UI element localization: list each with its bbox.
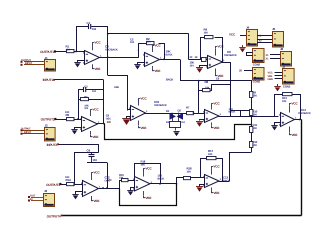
power VCC D1	[289, 106, 291, 113]
svg-text:CON3: CON3	[283, 85, 291, 89]
connector J3 row3	[44, 194, 55, 207]
svg-text:1K: 1K	[195, 56, 198, 59]
connector J1 row1	[45, 60, 56, 72]
svg-text:BACK: BACK	[166, 54, 173, 57]
svg-text:10K: 10K	[253, 94, 258, 97]
svg-text:INPUT: INPUT	[25, 62, 33, 65]
resistor R6 feedback B1	[81, 98, 89, 101]
ground C2 plus input	[131, 188, 135, 191]
svg-text:INPUT2: INPUT2	[47, 143, 58, 147]
wire JB1 pins	[246, 52, 253, 54]
svg-text:VEE: VEE	[218, 74, 224, 78]
resistor R16 series to C3 stage	[184, 177, 191, 180]
ground B3 plus input	[200, 120, 205, 121]
op-amp U3	[208, 56, 223, 69]
op-amp B3	[205, 110, 220, 123]
svg-text:VEE: VEE	[155, 69, 161, 73]
node diode junction dots	[171, 113, 173, 115]
svg-text:OUTPUT1: OUTPUT1	[40, 50, 54, 54]
svg-text:BACK: BACK	[229, 111, 236, 114]
ground U3 plus input	[200, 66, 208, 68]
wire R5 to B1	[74, 119, 82, 121]
svg-text:VEE: VEE	[146, 196, 152, 200]
wire C2 minus	[130, 180, 135, 182]
wire INPUT2 drop to loop	[98, 144, 100, 152]
resistor R1	[67, 50, 75, 53]
connector JA2	[273, 32, 284, 48]
svg-text:VEE: VEE	[141, 126, 147, 130]
ground U2 plus input	[138, 63, 145, 65]
ground U1 plus input	[78, 61, 85, 63]
svg-text:2X: 2X	[108, 178, 111, 182]
wire JC2 pins	[275, 72, 282, 74]
op-amp U2	[145, 53, 160, 67]
wire C1-stage feedback left	[75, 153, 99, 185]
svg-text:10K: 10K	[253, 113, 258, 116]
resistor R3 series to U3	[189, 59, 208, 61]
wire U2 out down to B3	[181, 60, 252, 91]
wire C3 feedback loop	[201, 159, 207, 178]
svg-text:J7: J7	[282, 65, 286, 69]
wire R1 to U1	[74, 51, 85, 53]
power VEE C1 stage	[91, 196, 93, 199]
wire B1 second feedback	[78, 99, 80, 101]
resistor R5	[67, 118, 75, 121]
resistor R11 ladder	[250, 127, 253, 133]
wire C2 feedback top loop	[135, 164, 161, 184]
resistor R14	[67, 183, 75, 186]
wire INPUT2 row2 bottom	[59, 144, 99, 146]
connector JC2	[283, 69, 295, 85]
wire to JA1	[240, 35, 246, 37]
wire C1 stage output	[97, 188, 119, 190]
wire U3 out down to B3 net	[230, 62, 232, 110]
wire B3 out to D1 net	[240, 116, 251, 118]
wire feedback right vertical row3	[107, 163, 109, 189]
wire C1 to output node	[91, 26, 108, 28]
ground B2 plus input	[127, 117, 131, 119]
ground C3 plus input	[200, 185, 205, 187]
wire B2 minus input	[127, 109, 130, 111]
svg-text:VCC: VCC	[214, 102, 221, 106]
svg-text:OSC/BACK: OSC/BACK	[105, 48, 118, 51]
svg-text:10K: 10K	[253, 144, 258, 147]
capacitor C4 feedback vertical	[91, 153, 93, 155]
svg-text:OSC: OSC	[106, 118, 111, 121]
power VCC U3	[215, 49, 217, 56]
wire B2 output	[144, 113, 199, 115]
svg-text:OUTPUT3: OUTPUT3	[46, 183, 60, 187]
power VEE B2	[138, 121, 140, 126]
power VEE C3 stage	[211, 188, 213, 191]
wire C3 stage output	[219, 181, 230, 183]
svg-text:10K: 10K	[205, 86, 210, 89]
power VEE U3	[215, 69, 217, 74]
svg-text:J6: J6	[280, 47, 284, 51]
power VEE C2	[143, 191, 145, 195]
svg-text:VEE: VEE	[93, 135, 99, 139]
svg-text:10K: 10K	[65, 111, 70, 114]
svg-text:INPUT1: INPUT1	[43, 78, 54, 82]
power VCC B3	[211, 105, 213, 109]
svg-text:U2B: U2B	[114, 86, 119, 89]
svg-text:CON2: CON2	[253, 80, 261, 84]
wire J2 pins	[21, 130, 44, 132]
connector JA1	[247, 30, 258, 47]
resistor R13 feedback D1	[283, 93, 293, 96]
svg-text:VCC: VCC	[95, 41, 102, 45]
wire B3 minus	[199, 113, 205, 115]
svg-text:10K: 10K	[208, 153, 213, 156]
switch box B3 out	[231, 111, 241, 117]
svg-text:VCC: VCC	[218, 45, 225, 49]
svg-text:C4: C4	[87, 149, 91, 153]
svg-text:10K: 10K	[253, 127, 258, 130]
svg-text:104: 104	[93, 158, 98, 162]
wire bus drop to U3 input	[188, 33, 190, 59]
connector JC1	[253, 68, 265, 81]
svg-text:BACK: BACK	[166, 79, 173, 82]
wire U3 output	[222, 62, 231, 64]
wire B1 out to bottom bus	[105, 124, 252, 140]
connector JB1	[253, 49, 265, 63]
power VEE U2	[152, 66, 154, 68]
power VEE D1	[289, 127, 291, 133]
ground D1 plus input	[275, 123, 281, 126]
svg-text:J5: J5	[272, 27, 276, 31]
wire U2 feedback loop	[139, 44, 147, 58]
svg-text:VCC: VCC	[93, 108, 100, 112]
svg-text:VCC: VCC	[292, 102, 299, 106]
wire row1 input	[55, 51, 67, 53]
op-amp B2	[131, 106, 146, 121]
svg-text:GND: GND	[268, 78, 274, 81]
wire D1 output	[294, 119, 302, 121]
wire U1 output	[99, 57, 139, 59]
op-amp U1	[85, 51, 100, 65]
svg-text:10K: 10K	[187, 171, 192, 174]
op-amp C1 stage amp	[83, 181, 99, 197]
svg-text:10K: 10K	[204, 32, 209, 35]
svg-text:OUTPUT4: OUTPUT4	[47, 214, 61, 218]
svg-text:VCC: VCC	[155, 44, 162, 48]
wire U1 output vertical	[107, 26, 109, 75]
svg-text:J2: J2	[45, 123, 49, 127]
resistor R10 ladder	[250, 110, 253, 116]
op-amp C2	[135, 177, 151, 192]
resistor R12 ladder	[250, 142, 253, 148]
capacitor C1	[88, 24, 90, 29]
connector J2 row2	[45, 128, 56, 141]
svg-text:VCC: VCC	[146, 167, 153, 171]
wire C2 out up to C3 stage	[177, 178, 184, 184]
svg-text:J3: J3	[44, 189, 48, 193]
power VEE B3	[211, 123, 213, 126]
power VCC B1	[90, 111, 92, 116]
svg-text:VEE: VEE	[95, 67, 101, 71]
svg-text:R8: R8	[205, 80, 209, 84]
wire D1 feedback loop	[275, 95, 283, 117]
svg-text:INPUT: INPUT	[24, 131, 32, 134]
svg-text:10K: 10K	[146, 41, 151, 44]
wire bus row1 top	[108, 33, 189, 35]
wire row2 input	[55, 119, 66, 121]
wire J1 pins	[24, 61, 44, 63]
wire J3 pins	[31, 197, 44, 199]
connector JB2	[281, 52, 292, 67]
ground B1 plus input	[75, 128, 82, 130]
resistor R2 feedback	[147, 42, 155, 45]
ground JC2	[277, 84, 279, 87]
wire U2 output	[159, 59, 180, 61]
svg-text:VEE: VEE	[214, 191, 220, 195]
wire JA1 to JA2 pins	[257, 35, 273, 37]
capacitor C2 feedback B1	[78, 89, 83, 91]
power VCC C3 stage	[211, 169, 213, 175]
svg-text:10K: 10K	[66, 49, 71, 52]
wire output right vertical	[301, 120, 303, 216]
power VCC U2	[152, 47, 154, 52]
power VCC C2	[143, 170, 145, 177]
diode D1 pair to ground	[170, 113, 177, 120]
wire feedback C1 left	[77, 27, 89, 52]
svg-text:10K: 10K	[119, 177, 124, 180]
wire B3 output	[219, 116, 231, 118]
power VCC C1 stage	[91, 174, 93, 180]
svg-text:C1: C1	[87, 21, 91, 25]
wire C2 output	[149, 183, 177, 185]
wire output bottom bus	[63, 215, 302, 217]
ground JA1	[242, 45, 244, 47]
svg-text:VCC: VCC	[214, 165, 221, 169]
svg-text:10K: 10K	[141, 163, 146, 166]
svg-text:OUTPUT2: OUTPUT2	[41, 117, 55, 121]
wire ladder vertical	[251, 90, 253, 152]
svg-text:104: 104	[92, 27, 97, 31]
resistor R8 feedback B3	[203, 89, 211, 92]
svg-text:10K: 10K	[65, 176, 70, 179]
svg-text:OSC/BACK: OSC/BACK	[224, 54, 237, 57]
wire U1 to B2 drop	[108, 76, 128, 111]
power VEE U1	[92, 64, 94, 66]
svg-text:VEE: VEE	[94, 199, 100, 203]
crystal box below diodes	[170, 122, 181, 128]
svg-text:10K: 10K	[282, 100, 287, 103]
wire U3 feedback loop	[201, 38, 205, 60]
wire to ladder top tap	[240, 110, 251, 112]
ground C1 plus input	[76, 192, 83, 195]
svg-text:IN: IN	[30, 198, 33, 201]
wire C2 feedback bottom loop	[120, 184, 177, 206]
svg-text:BACK: BACK	[158, 177, 165, 180]
resistor R7 series B2-B3	[187, 112, 194, 115]
svg-text:J1: J1	[45, 56, 49, 60]
wire R14 to C1 stage	[74, 184, 83, 186]
wire row3 input	[60, 184, 66, 186]
resistor R15 to C2	[122, 179, 129, 182]
svg-text:VCC: VCC	[141, 97, 148, 101]
svg-text:VEE: VEE	[214, 126, 220, 130]
wire A2 out branch to B3	[198, 80, 200, 90]
op-amp D1	[281, 113, 295, 127]
wire C4 lower rail	[87, 162, 107, 164]
wire tap to D1	[251, 116, 279, 118]
op-amp B1	[82, 117, 98, 132]
wire C2 input from loop	[120, 181, 130, 189]
wire B1 feedback right vertical	[103, 80, 105, 124]
svg-text:OSC/BACK: OSC/BACK	[154, 104, 167, 107]
power VCC U1	[92, 44, 94, 50]
op-amp C3 stage amp	[205, 175, 220, 188]
power VCC B2	[138, 100, 140, 106]
svg-text:VEE: VEE	[292, 133, 298, 137]
svg-text:CON2: CON2	[253, 63, 261, 67]
wire B3 feedback loop	[199, 91, 203, 114]
resistor R17 feedback C3	[207, 157, 217, 160]
svg-text:VCC: VCC	[229, 33, 236, 37]
wire B1 feedback left vertical	[78, 89, 80, 119]
svg-text:VCC: VCC	[94, 171, 101, 175]
ground crystal	[175, 128, 177, 131]
svg-text:2X: 2X	[190, 56, 193, 59]
wire JC1 pin	[244, 70, 253, 72]
wire JB2 pins	[270, 54, 280, 56]
resistor R4 feedback U3	[205, 36, 214, 39]
svg-text:J4: J4	[246, 26, 250, 30]
svg-text:OSC/BACK: OSC/BACK	[298, 112, 311, 115]
resistor R9 ladder	[250, 92, 253, 98]
wire C3 out up to ladder	[230, 153, 252, 182]
power VEE B1	[90, 131, 92, 134]
wire B1 output	[96, 123, 105, 125]
